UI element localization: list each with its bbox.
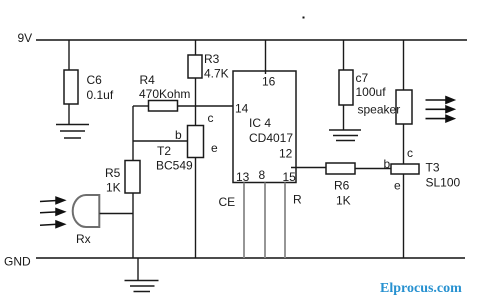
transistor T2 — [188, 126, 204, 158]
arrow (speaker output, bottom) — [426, 115, 455, 121]
arrow (into Rx, top) — [40, 197, 65, 203]
arrow (into Rx, bottom) — [40, 221, 65, 228]
svg-text:c: c — [407, 146, 413, 160]
svg-text:R6: R6 — [334, 179, 350, 193]
svg-text:e: e — [211, 141, 218, 155]
svg-text:100uf: 100uf — [356, 85, 387, 99]
svg-text:9V: 9V — [18, 31, 33, 45]
wire R4 node to R5 — [132, 106, 134, 161]
wire IC pin 13 to GND — [243, 183, 245, 259]
svg-text:1K: 1K — [336, 194, 351, 208]
svg-text:R: R — [293, 193, 302, 207]
wire Rx to R5 column — [100, 213, 134, 215]
wire T2 emitter to GND — [195, 158, 197, 259]
svg-text:c7: c7 — [356, 71, 369, 85]
svg-text:14: 14 — [235, 102, 249, 116]
wire c7 to ground — [343, 105, 345, 131]
svg-text:1K: 1K — [106, 181, 121, 195]
transistor T3 — [391, 164, 419, 174]
resistor R6 — [326, 163, 355, 174]
capacitor C6 — [64, 70, 78, 104]
wire 9V to c7 — [343, 40, 345, 70]
speaker element — [396, 90, 412, 124]
wire T3 emitter to GND — [403, 174, 405, 258]
wire T2 base — [133, 140, 188, 142]
photodetector Rx — [73, 195, 100, 227]
svg-text:SL100: SL100 — [426, 176, 461, 190]
wire 9V to R3 — [195, 40, 197, 55]
capacitor c7 — [339, 70, 353, 105]
svg-text:R4: R4 — [140, 73, 156, 87]
ground (under C6) — [56, 125, 89, 139]
svg-text:470Kohm: 470Kohm — [139, 87, 190, 101]
arrow (speaker output, middle) — [426, 106, 455, 112]
resistor R3 — [188, 55, 202, 78]
wire node A to T2 collector — [195, 106, 197, 126]
svg-text:b: b — [175, 128, 182, 142]
wire GND rail to ground symbol — [137, 258, 139, 281]
svg-text:Elprocus.com: Elprocus.com — [380, 281, 462, 296]
wire R6 to T3 base — [355, 168, 391, 170]
svg-text:c: c — [208, 111, 214, 125]
wire R4 to IC pin 14 — [178, 105, 234, 107]
svg-text:CD4017: CD4017 — [249, 131, 293, 145]
svg-text:15: 15 — [283, 170, 297, 184]
svg-text:R5: R5 — [105, 166, 121, 180]
wire IC pin 15 to R6 — [291, 167, 326, 169]
ground (main) — [125, 281, 159, 292]
arrow (into Rx, middle) — [40, 209, 65, 216]
wire R3 to node A — [195, 78, 197, 106]
svg-text:BC549: BC549 — [156, 159, 193, 173]
resistor R4 — [149, 101, 178, 112]
svg-text:IC 4: IC 4 — [249, 116, 271, 130]
IC U1 CD4017 body — [233, 71, 296, 183]
svg-text:b: b — [384, 157, 391, 171]
svg-text:T3: T3 — [426, 161, 440, 175]
svg-text:8: 8 — [259, 168, 266, 182]
svg-text:12: 12 — [279, 147, 293, 161]
svg-text:Rx: Rx — [76, 232, 91, 246]
wire left column to R4 — [133, 105, 149, 107]
ground (under c7) — [329, 130, 361, 141]
wire C6 to ground — [68, 104, 70, 125]
svg-text:13: 13 — [236, 170, 250, 184]
wire 9V rail — [36, 39, 467, 41]
wire R5 to GND — [132, 193, 134, 258]
stray dot — [303, 17, 305, 19]
svg-text:16: 16 — [262, 75, 276, 89]
wire speaker to T3 collector — [403, 124, 405, 164]
wire IC pin 8 to GND — [264, 183, 266, 259]
wire 9V to C6 — [68, 40, 70, 70]
svg-text:e: e — [394, 179, 401, 193]
svg-text:GND: GND — [4, 255, 31, 269]
svg-text:4.7K: 4.7K — [204, 67, 229, 81]
resistor R5 — [125, 161, 140, 194]
svg-text:CE: CE — [219, 195, 236, 209]
wire 9V to speaker — [403, 40, 405, 90]
svg-text:C6: C6 — [87, 73, 103, 87]
wire GND rail — [36, 257, 465, 259]
svg-text:speaker: speaker — [358, 103, 401, 117]
svg-text:R3: R3 — [204, 52, 220, 66]
svg-text:0.1uf: 0.1uf — [87, 88, 114, 102]
wire 9V to IC pin 16 — [265, 40, 267, 74]
arrow (speaker output, top) — [426, 97, 455, 103]
svg-text:T2: T2 — [157, 144, 171, 158]
wire IC pin 15 to GND — [284, 183, 286, 259]
